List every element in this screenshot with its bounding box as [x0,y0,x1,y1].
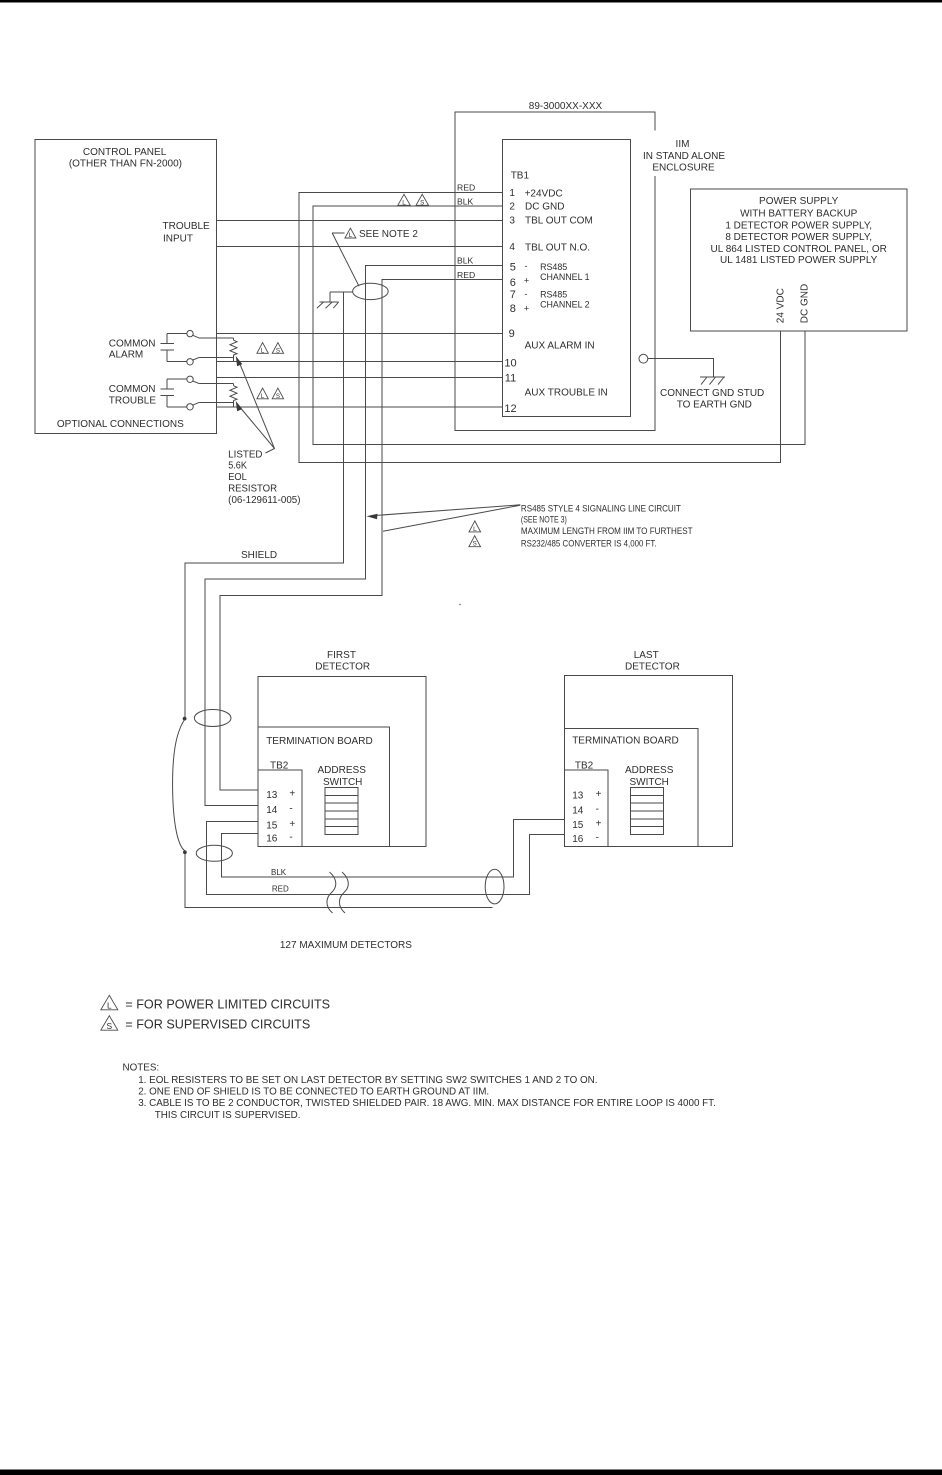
svg-text:15: 15 [266,820,278,831]
svg-text:(OTHER THAN FN-2000): (OTHER THAN FN-2000) [69,159,182,170]
svg-text:-: - [596,833,599,844]
svg-text:S: S [420,199,424,206]
svg-text:+: + [596,789,602,800]
svg-text:TERMINATION BOARD: TERMINATION BOARD [266,736,372,747]
svg-text:DC GND: DC GND [800,284,811,323]
svg-text:-: - [525,289,528,299]
svg-text:CONNECT GND STUD: CONNECT GND STUD [660,388,764,399]
svg-text:24 VDC: 24 VDC [776,288,787,323]
svg-text:+: + [596,819,602,830]
svg-text:L: L [261,393,265,400]
svg-text:6: 6 [510,277,516,289]
svg-text:POWER SUPPLY: POWER SUPPLY [759,196,839,207]
svg-text:TBL OUT N.O.: TBL OUT N.O. [525,243,590,254]
svg-text:LISTED: LISTED [228,449,262,460]
svg-text:-: - [525,261,528,271]
svg-text:= FOR SUPERVISED CIRCUITS: = FOR SUPERVISED CIRCUITS [125,1018,310,1032]
svg-text:+: + [524,304,529,314]
svg-text:(SEE NOTE 3): (SEE NOTE 3) [521,515,567,525]
svg-text:5: 5 [510,262,516,274]
svg-text:OPTIONAL CONNECTIONS: OPTIONAL CONNECTIONS [57,419,184,430]
svg-text:ADDRESS: ADDRESS [318,765,367,776]
svg-text:8: 8 [510,303,516,315]
svg-text:= FOR POWER LIMITED CIRCUITS: = FOR POWER LIMITED CIRCUITS [125,997,330,1011]
svg-text:IN STAND ALONE: IN STAND ALONE [643,151,725,162]
svg-text:IIM: IIM [676,139,690,150]
svg-text:DETECTOR: DETECTOR [625,661,680,672]
svg-text:10: 10 [504,358,516,370]
svg-text:SEE NOTE 2: SEE NOTE 2 [359,229,418,240]
svg-text:SHIELD: SHIELD [241,550,277,561]
svg-text:2: 2 [509,201,515,212]
svg-text:EOL: EOL [228,472,247,483]
svg-text:BLK: BLK [457,256,474,266]
svg-text:ADDRESS: ADDRESS [625,765,674,776]
svg-text:S: S [276,347,280,354]
svg-text:LAST: LAST [634,650,659,661]
svg-text:+: + [289,819,295,830]
svg-text:TB2: TB2 [575,761,594,772]
svg-text:RS485: RS485 [540,262,567,272]
svg-text:COMMON: COMMON [109,339,156,350]
svg-text:4: 4 [509,242,515,253]
svg-text:ENCLOSURE: ENCLOSURE [652,162,715,173]
svg-text:BLK: BLK [271,868,287,877]
svg-text:TROUBLE: TROUBLE [163,221,211,232]
svg-text:COMMON: COMMON [109,384,156,395]
svg-text:89-3000XX-XXX: 89-3000XX-XXX [529,101,603,112]
svg-text:16: 16 [572,834,584,845]
svg-text:-: - [289,804,292,815]
svg-text:S: S [473,541,477,548]
svg-text:ALARM: ALARM [109,350,143,361]
svg-text:14: 14 [266,805,278,816]
svg-text:NOTES:: NOTES: [123,1063,160,1074]
svg-text:12: 12 [504,403,516,415]
svg-text:WITH BATTERY BACKUP: WITH BATTERY BACKUP [740,208,858,219]
svg-text:3: 3 [509,215,515,226]
svg-text:L: L [261,347,265,354]
svg-text:RS232/485 CONVERTER IS 4,000 F: RS232/485 CONVERTER IS 4,000 FT. [521,539,657,549]
svg-text:TO EARTH GND: TO EARTH GND [677,399,752,410]
svg-text:+24VDC: +24VDC [525,188,563,199]
svg-text:S: S [107,1021,113,1031]
svg-text:13: 13 [266,790,278,801]
svg-text:-: - [289,832,292,843]
svg-text:RED: RED [457,270,475,280]
svg-text:RS485 STYLE 4 SIGNALING LINE C: RS485 STYLE 4 SIGNALING LINE CIRCUIT [521,503,682,513]
svg-text:TB2: TB2 [270,761,289,772]
svg-text:BLK: BLK [457,196,474,206]
svg-text:L: L [349,232,353,239]
svg-text:CHANNEL 2: CHANNEL 2 [540,300,590,310]
svg-text:RED: RED [457,182,475,192]
svg-text:14: 14 [572,805,584,816]
svg-text:TB1: TB1 [511,170,530,181]
svg-text:THIS CIRCUIT IS SUPERVISED.: THIS CIRCUIT IS SUPERVISED. [155,1110,301,1121]
svg-text:S: S [276,393,280,400]
svg-text:5.6K: 5.6K [228,461,247,472]
svg-text:(06-129611-005): (06-129611-005) [228,495,300,506]
svg-text:RESISTOR: RESISTOR [228,484,277,495]
svg-text:DC GND: DC GND [525,202,564,213]
svg-text:+: + [524,275,529,285]
svg-text:1. EOL RESISTERS TO BE SET ON: 1. EOL RESISTERS TO BE SET ON LAST DETEC… [138,1075,597,1086]
svg-text:8 DETECTOR POWER SUPPLY,: 8 DETECTOR POWER SUPPLY, [725,232,872,243]
svg-text:RED: RED [272,885,289,894]
svg-text:CONTROL PANEL: CONTROL PANEL [83,147,167,158]
svg-text:16: 16 [266,833,278,844]
svg-text:3. CABLE IS TO BE 2 CONDUCTOR,: 3. CABLE IS TO BE 2 CONDUCTOR, TWISTED S… [138,1098,716,1109]
svg-text:L: L [402,199,406,206]
svg-text:AUX TROUBLE IN: AUX TROUBLE IN [525,387,608,398]
svg-text:9: 9 [509,328,515,340]
svg-text:RS485: RS485 [540,290,567,300]
svg-text:MAXIMUM LENGTH FROM IIM TO FUR: MAXIMUM LENGTH FROM IIM TO FURTHEST [521,526,693,536]
svg-text:11: 11 [505,372,516,384]
svg-text:1 DETECTOR POWER SUPPLY,: 1 DETECTOR POWER SUPPLY, [725,220,872,231]
svg-text:FIRST: FIRST [327,650,356,661]
svg-text:-: - [596,804,599,815]
svg-text:TROUBLE: TROUBLE [109,395,157,406]
svg-text:L: L [107,1001,112,1011]
svg-text:SWITCH: SWITCH [629,777,668,788]
svg-text:AUX ALARM IN: AUX ALARM IN [525,341,595,352]
svg-text:13: 13 [572,790,584,801]
svg-text:15: 15 [572,820,584,831]
svg-text:TBL OUT COM: TBL OUT COM [525,215,593,226]
svg-text:SWITCH: SWITCH [323,777,362,788]
svg-text:UL 864 LISTED CONTROL PANEL, O: UL 864 LISTED CONTROL PANEL, OR [711,244,887,255]
svg-text:UL 1481 LISTED POWER SUPPLY: UL 1481 LISTED POWER SUPPLY [720,255,878,266]
svg-text:7: 7 [510,289,516,301]
svg-text:INPUT: INPUT [163,234,193,245]
svg-text:2. ONE END OF SHIELD IS TO BE: 2. ONE END OF SHIELD IS TO BE CONNECTED … [138,1087,489,1098]
svg-text:TERMINATION BOARD: TERMINATION BOARD [572,735,678,746]
svg-text:L: L [473,526,477,533]
svg-text:1: 1 [509,188,515,199]
svg-text:DETECTOR: DETECTOR [315,662,370,673]
svg-text:+: + [289,789,295,800]
svg-text:CHANNEL 1: CHANNEL 1 [540,272,590,282]
svg-text:127 MAXIMUM DETECTORS: 127 MAXIMUM DETECTORS [280,940,412,951]
